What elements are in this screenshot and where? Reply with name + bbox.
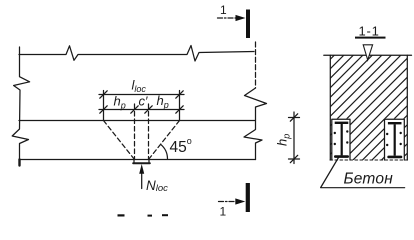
concrete hatching of section block bbox=[330, 55, 407, 160]
svg-text:1: 1 bbox=[220, 205, 227, 219]
tick hp-line inner right bbox=[145, 106, 152, 113]
tick hp-line left end bbox=[100, 106, 107, 113]
embedded I-profile left: top flange bbox=[335, 122, 349, 124]
dashed load-spread diagonal right bbox=[149, 121, 180, 160]
svg-text:hp: hp bbox=[275, 134, 292, 146]
tick h_p bottom bbox=[290, 155, 297, 162]
svg-text:45o: 45o bbox=[170, 136, 192, 156]
embedded I-profile right: bottom flange bbox=[387, 156, 402, 159]
section mark top: dash-dot tail bbox=[218, 17, 237, 19]
block bottom edge (dashed) bbox=[330, 159, 408, 161]
svg-text:c′: c′ bbox=[139, 94, 149, 109]
tick hp-line right end bbox=[176, 106, 183, 113]
beam left edge thick lower end bbox=[18, 160, 20, 166]
beam top edge with break symbols bbox=[19, 46, 254, 62]
groove left outline bbox=[332, 119, 350, 160]
dashed load-spread diagonal left bbox=[104, 121, 135, 160]
tick at right end of l_loc bbox=[176, 91, 183, 98]
embedded I-profile left: bottom flange bbox=[334, 155, 349, 158]
notch triangle at load point bbox=[363, 45, 372, 60]
embedded I-profile left: anchor dots bbox=[334, 132, 336, 134]
load arrow N_loc shaft bbox=[141, 173, 143, 189]
svg-text:lloc: lloc bbox=[132, 78, 147, 95]
tick at left end of l_loc bbox=[100, 91, 107, 98]
section mark bottom: dash-dot tail bbox=[219, 201, 238, 203]
section mark top: arrowhead bbox=[236, 15, 246, 21]
section mark bottom: thick cut stroke bbox=[246, 183, 250, 212]
beam right edge upper dashed segment bbox=[255, 42, 257, 88]
dimension extension line left bbox=[103, 91, 105, 121]
embedded I-profile right: web bbox=[394, 124, 396, 155]
section mark top: thick cut stroke bbox=[246, 10, 250, 39]
cropped caption mark 3 bbox=[162, 214, 168, 216]
section 1-1 block top edge bbox=[324, 54, 412, 56]
extension mark h_p bottom bbox=[289, 158, 300, 160]
block left edge bbox=[329, 55, 331, 160]
groove right (unhatched pocket) bbox=[385, 119, 405, 160]
beam bottom edge bbox=[19, 159, 256, 161]
block right edge bbox=[406, 55, 408, 160]
embedded I-profile right: anchor dots bbox=[386, 133, 388, 135]
tick h_p top bbox=[290, 114, 297, 121]
cropped caption mark 1 bbox=[118, 214, 125, 216]
Beton underline shelf bbox=[321, 187, 405, 189]
dimension line hp c' hp bbox=[99, 109, 184, 111]
tick hp-line inner left bbox=[131, 106, 138, 113]
extension mark h_p top bbox=[289, 117, 300, 119]
embedded I-profile right: top flange bbox=[388, 122, 402, 124]
svg-text:hp: hp bbox=[157, 93, 169, 110]
svg-text:Бетон: Бетон bbox=[344, 171, 394, 188]
dimension line l_loc bbox=[99, 94, 184, 96]
svg-text:1-1: 1-1 bbox=[359, 24, 380, 39]
45 degree arc bbox=[161, 144, 168, 159]
dimension extension line right bbox=[179, 91, 181, 121]
embedded I-profile left: web bbox=[341, 124, 343, 155]
section mark bottom: arrowhead bbox=[235, 198, 245, 204]
beam middle edge bbox=[19, 120, 255, 122]
load arrowhead bbox=[139, 164, 144, 174]
beam left edge with break symbols bbox=[12, 47, 29, 160]
dashed vertical plate-edge line left bbox=[134, 104, 136, 160]
svg-text:Nloc: Nloc bbox=[146, 178, 168, 194]
dim h_p vertical line bbox=[293, 112, 295, 164]
beam right edge with break symbols bbox=[244, 88, 267, 160]
svg-text:hp: hp bbox=[114, 94, 126, 111]
bearing plate under N_loc bbox=[134, 160, 149, 163]
leader line to Beton bbox=[321, 158, 339, 188]
cropped caption mark 2 bbox=[148, 215, 153, 217]
groove right outline bbox=[385, 119, 405, 160]
svg-text:1: 1 bbox=[220, 3, 227, 17]
dashed vertical plate-edge line right bbox=[148, 104, 150, 160]
groove left (unhatched pocket) bbox=[332, 119, 350, 160]
section title underline bbox=[355, 37, 386, 39]
